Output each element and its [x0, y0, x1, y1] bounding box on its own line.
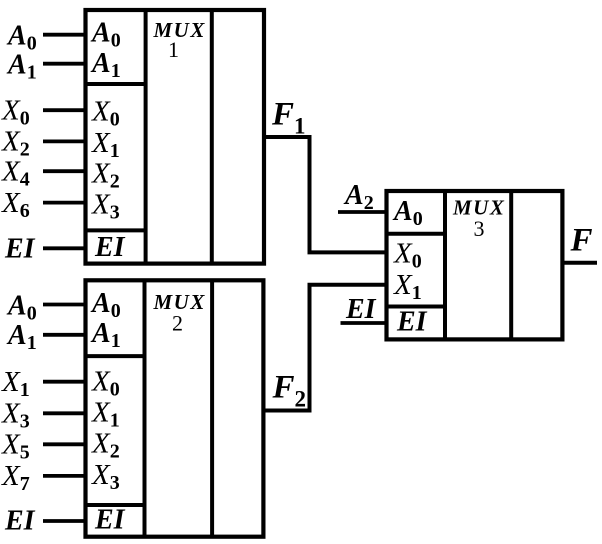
mux U2 enable-box separator — [86, 503, 145, 507]
svg-text:F: F — [570, 223, 593, 259]
wire input A1 to U1 — [43, 62, 86, 66]
svg-text:EI: EI — [4, 234, 36, 265]
svg-text:2: 2 — [172, 310, 183, 335]
wire input X0 to U1 — [43, 108, 86, 112]
mux U1 inner divider left — [144, 10, 148, 264]
mux U3 outer box — [387, 191, 563, 339]
svg-text:1: 1 — [168, 37, 179, 62]
wire F1 to X0 of U3 — [308, 250, 387, 254]
mux U2 address-box separator — [86, 354, 145, 358]
mux U3 enable-box separator — [387, 305, 446, 309]
mux U3 inner divider right — [509, 191, 513, 339]
mux U2 inner divider left — [143, 280, 147, 536]
mux U1 inner divider right — [210, 10, 214, 264]
wire F2 vertical segment — [308, 285, 312, 413]
wire input X2 to U1 — [43, 139, 86, 143]
wire input A1 to U2 — [43, 333, 86, 337]
mux U1 outer box — [86, 10, 265, 264]
svg-text:EI: EI — [94, 232, 126, 263]
mux U1 enable-box separator — [86, 228, 146, 232]
wire input X3 to U2 — [43, 411, 86, 415]
wire input A2 to U3 — [338, 210, 387, 214]
svg-text:MUX: MUX — [153, 18, 206, 42]
wire F2 output of U2 — [263, 409, 311, 413]
wire F2 to X1 of U3 — [308, 283, 387, 287]
wire input X4 to U1 — [43, 169, 86, 173]
svg-text:EI: EI — [345, 294, 377, 325]
wire input EI to U3 — [341, 321, 387, 325]
wire input X6 to U1 — [43, 201, 86, 205]
mux U3 inner divider left — [443, 191, 447, 339]
svg-text:EI: EI — [396, 307, 428, 338]
wire F1 output of U1 — [264, 135, 311, 139]
wire F1 vertical segment — [308, 135, 312, 252]
wire input EI to U1 — [43, 246, 86, 250]
mux U3 address-box separator — [387, 232, 446, 236]
wire F output of U3 — [562, 261, 597, 265]
wire input A0 to U2 — [43, 303, 86, 307]
wire input X1 to U2 — [43, 380, 86, 384]
wire input X5 to U2 — [43, 442, 86, 446]
wire input A0 to U1 — [43, 33, 86, 37]
mux U2 inner divider right — [210, 280, 214, 536]
svg-text:3: 3 — [474, 216, 485, 241]
mux U1 address-box separator — [86, 82, 146, 86]
wire input X7 to U2 — [43, 474, 86, 478]
mux U2 outer box — [86, 280, 264, 536]
svg-text:EI: EI — [94, 504, 126, 535]
svg-text:EI: EI — [4, 506, 36, 537]
wire input EI to U2 — [43, 519, 86, 523]
